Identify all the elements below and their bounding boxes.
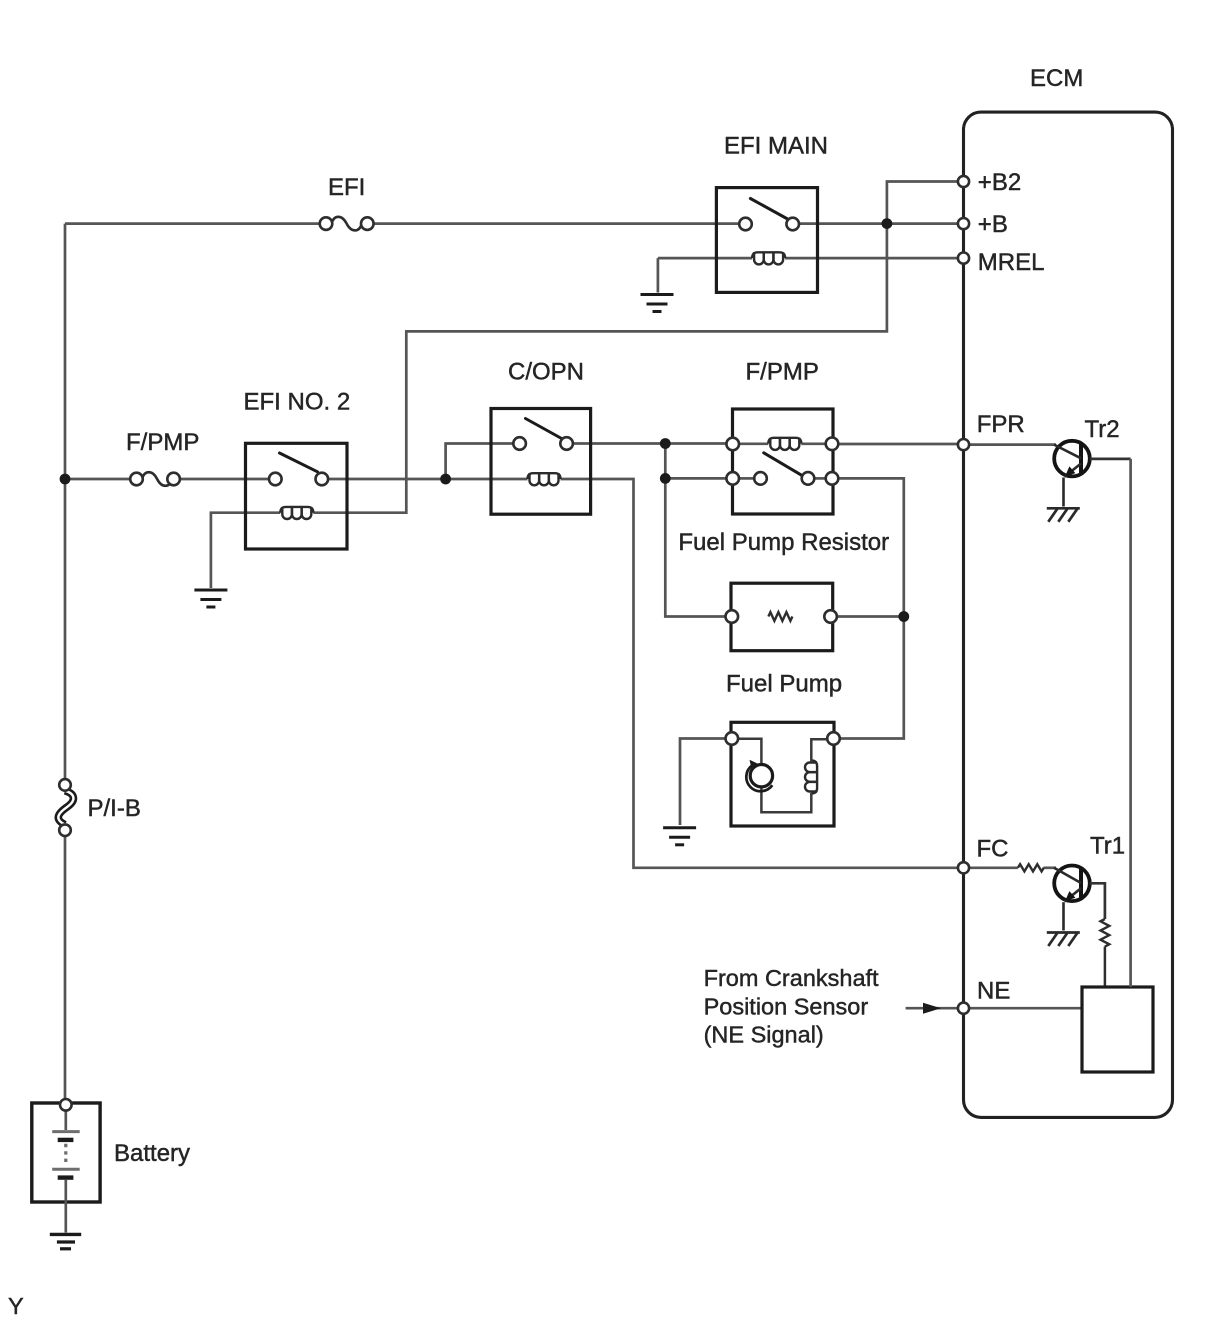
svg-text:Battery: Battery — [114, 1140, 190, 1167]
svg-text:FC: FC — [977, 836, 1009, 863]
svg-text:Y: Y — [8, 1293, 24, 1319]
svg-text:P/I-B: P/I-B — [88, 795, 141, 822]
svg-text:ECM: ECM — [1030, 65, 1083, 92]
svg-text:From Crankshaft: From Crankshaft — [704, 965, 879, 991]
svg-text:Fuel Pump: Fuel Pump — [726, 671, 842, 698]
svg-text:Fuel Pump Resistor: Fuel Pump Resistor — [678, 529, 889, 556]
svg-text:F/PMP: F/PMP — [126, 429, 199, 456]
svg-text:C/OPN: C/OPN — [508, 359, 584, 386]
svg-text:FPR: FPR — [977, 411, 1025, 438]
svg-text:Position Sensor: Position Sensor — [704, 994, 869, 1020]
svg-text:EFI MAIN: EFI MAIN — [724, 133, 828, 160]
svg-text:F/PMP: F/PMP — [746, 359, 819, 386]
svg-text:MREL: MREL — [978, 249, 1045, 276]
svg-text:+B2: +B2 — [978, 169, 1021, 196]
svg-text:EFI: EFI — [328, 174, 365, 201]
svg-text:Tr2: Tr2 — [1085, 416, 1120, 443]
svg-text:(NE Signal): (NE Signal) — [704, 1022, 824, 1048]
svg-text:+B: +B — [978, 211, 1008, 238]
svg-text:NE: NE — [977, 978, 1010, 1005]
svg-text:EFI NO. 2: EFI NO. 2 — [244, 389, 351, 416]
svg-text:Tr1: Tr1 — [1090, 833, 1125, 860]
